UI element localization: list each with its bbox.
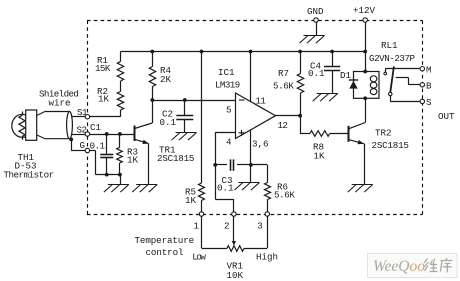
svg-text:11: 11 — [256, 96, 267, 107]
svg-text:1: 1 — [194, 220, 200, 231]
svg-text:TR2: TR2 — [375, 128, 392, 139]
svg-text:5: 5 — [226, 105, 232, 116]
svg-text:R7: R7 — [278, 68, 289, 79]
svg-text:WeeQoo: WeeQoo — [373, 258, 425, 275]
svg-text:2: 2 — [224, 221, 230, 232]
svg-text:M: M — [426, 65, 432, 76]
svg-text:LM319: LM319 — [215, 80, 240, 91]
svg-text:0.1: 0.1 — [90, 141, 106, 152]
svg-text:3: 3 — [257, 220, 263, 231]
svg-text:1K: 1K — [314, 151, 326, 162]
svg-text:OUT: OUT — [438, 111, 455, 122]
svg-text:Temperature: Temperature — [135, 235, 195, 246]
svg-text:0.1: 0.1 — [160, 117, 177, 128]
svg-text:12: 12 — [278, 120, 288, 131]
svg-text:1K: 1K — [98, 94, 110, 105]
svg-text:D1: D1 — [340, 70, 352, 81]
svg-text:+12V: +12V — [353, 5, 376, 16]
svg-text:5.6K: 5.6K — [274, 190, 295, 201]
svg-text:4: 4 — [226, 137, 232, 148]
svg-text:0.1: 0.1 — [308, 68, 325, 79]
svg-text:2K: 2K — [160, 74, 172, 85]
svg-text:wire: wire — [49, 98, 71, 109]
svg-text:IC1: IC1 — [218, 67, 235, 78]
svg-text:S2: S2 — [77, 125, 87, 136]
svg-text:GND: GND — [307, 6, 324, 17]
svg-text:15K: 15K — [95, 63, 111, 74]
svg-text:1K: 1K — [127, 155, 139, 166]
svg-text:S: S — [426, 97, 432, 108]
svg-text:C1: C1 — [90, 122, 102, 133]
svg-text:0.1: 0.1 — [217, 183, 234, 194]
svg-text:2SC1815: 2SC1815 — [157, 153, 194, 164]
svg-text:10K: 10K — [227, 270, 244, 281]
svg-text:Thermistor: Thermistor — [4, 170, 54, 181]
svg-text:High: High — [256, 251, 278, 262]
svg-text:1K: 1K — [185, 195, 197, 206]
svg-text:B: B — [426, 81, 432, 92]
svg-text:S1: S1 — [77, 107, 88, 118]
svg-text:5.6K: 5.6K — [273, 81, 294, 92]
svg-text:2SC1815: 2SC1815 — [372, 140, 409, 151]
svg-text:3,6: 3,6 — [252, 139, 269, 150]
svg-text:G2VN-237P: G2VN-237P — [369, 53, 416, 64]
svg-text:control: control — [146, 247, 184, 258]
svg-text:Low: Low — [192, 251, 206, 262]
svg-text:RL1: RL1 — [381, 40, 398, 51]
svg-text:G: G — [80, 140, 86, 151]
